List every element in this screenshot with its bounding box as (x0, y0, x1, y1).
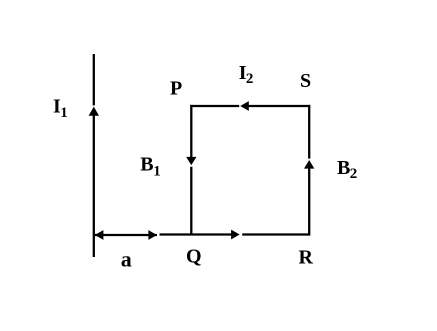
wire loop left side PQ, lower segment (190, 167, 192, 235)
svg-text:R: R (299, 247, 314, 269)
arrowhead on bottom side (current toward R, pointing right) (231, 230, 240, 240)
svg-text:S: S (300, 70, 311, 92)
wire loop top side PS, right segment to S (249, 105, 311, 107)
svg-text:1: 1 (60, 105, 68, 121)
wire loop right side SR, lower segment (308, 168, 310, 234)
arrowhead on left side (current down, B1) (186, 157, 196, 165)
svg-text:2: 2 (350, 166, 358, 182)
wire loop left side PQ, upper segment (190, 105, 192, 157)
wire loop bottom side QR, right segment (242, 233, 310, 235)
svg-text:a: a (121, 247, 132, 272)
svg-text:B: B (337, 157, 350, 179)
distance measure line a (wire to loop) (95, 234, 157, 236)
measure arrowhead right (148, 230, 157, 240)
wire loop right side SR, upper segment (308, 105, 310, 159)
label I2 (239, 62, 254, 87)
wire loop top side PS, left segment from P (190, 105, 239, 107)
svg-text:1: 1 (153, 163, 161, 179)
measure arrowhead left (95, 230, 104, 240)
label I1 (53, 96, 68, 121)
svg-text:2: 2 (246, 71, 254, 87)
svg-text:B: B (140, 154, 153, 176)
svg-text:Q: Q (186, 246, 202, 268)
wire I1 (long straight conductor, upper segment) (93, 54, 95, 105)
label B1 (140, 154, 161, 180)
wire loop bottom side QR, left segment (160, 233, 232, 235)
arrowhead current direction on wire (up) (89, 107, 99, 116)
wire I1 (lower segment) (93, 116, 95, 258)
svg-text:P: P (170, 77, 182, 99)
arrowhead on top side (current toward P, pointing left) (240, 101, 249, 111)
arrowhead on right side (current up, B2) (304, 160, 314, 169)
label B2 (337, 157, 357, 182)
